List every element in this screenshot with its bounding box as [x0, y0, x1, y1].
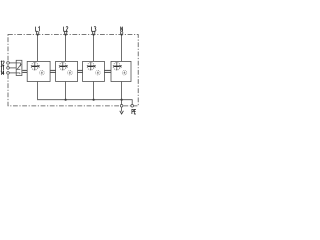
- junction dot bus L3: [93, 99, 95, 101]
- linkage module 3 to module 4: [104, 70, 111, 73]
- terminal L1 circle: [36, 32, 39, 35]
- SPD module 2 box: [56, 61, 78, 81]
- terminal 11 circle: [7, 67, 10, 70]
- wire module 4 to bus: [121, 82, 123, 100]
- PE terminal circle: [131, 105, 134, 108]
- earth terminal circle: [120, 105, 123, 108]
- junction dot L2: [65, 34, 67, 36]
- terminal L2 circle: [64, 32, 67, 35]
- junction dot N: [121, 34, 123, 36]
- terminal 14 circle: [7, 72, 10, 75]
- terminal label 11: [1, 66, 4, 70]
- junction dot L3: [93, 34, 95, 36]
- terminal N circle: [120, 32, 123, 35]
- remote signalling switch box: [16, 60, 22, 75]
- PE bus: [38, 100, 133, 105]
- earth branch wire: [121, 100, 123, 105]
- terminal L3 circle: [92, 32, 95, 35]
- junction dot bus N: [121, 99, 123, 101]
- SPD module 4 box: [111, 61, 131, 81]
- wire L3 drop: [93, 32, 95, 62]
- terminal 12 circle: [7, 62, 10, 65]
- junction dot L1: [37, 34, 39, 36]
- node L1 label: [36, 27, 40, 32]
- wire L1 drop: [37, 32, 39, 62]
- wire module 1 to bus: [37, 82, 39, 101]
- wire L2 drop: [65, 32, 67, 62]
- wire module 3 to bus: [93, 82, 95, 100]
- terminal label 14: [1, 71, 4, 75]
- wire N drop: [121, 32, 123, 62]
- earth electrode arrow: [121, 107, 123, 111]
- junction dot bus L2: [65, 99, 67, 101]
- enclosure dash-dot border: [8, 35, 138, 106]
- wire module 2 to bus: [65, 82, 67, 100]
- SPD module 3 box: [83, 61, 105, 81]
- linkage switch box to module 1: [22, 70, 27, 73]
- terminal label 12: [1, 61, 4, 65]
- PE label: [132, 109, 136, 114]
- wire 14: [8, 72, 20, 74]
- linkage module 1 to module 2: [50, 70, 56, 73]
- wire 11: [8, 67, 16, 69]
- linkage module 2 to module 3: [78, 70, 83, 73]
- node L2 label: [64, 27, 68, 32]
- node N label: [121, 27, 123, 32]
- SPD module 1 box: [27, 61, 50, 81]
- wire 12: [8, 62, 21, 64]
- node L3 label: [92, 27, 96, 32]
